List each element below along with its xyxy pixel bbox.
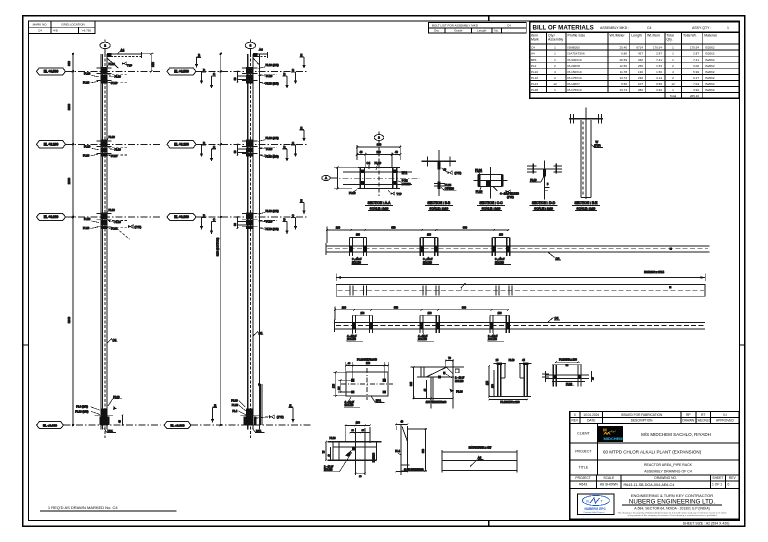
svg-text:REV: REV	[729, 476, 737, 480]
section A-A dimensions	[356, 143, 402, 167]
svg-text:(TYP): (TYP)	[135, 225, 142, 229]
level line EL +3.200 col1	[37, 141, 161, 148]
svg-text:D: D	[203, 68, 205, 72]
svg-text:E: E	[214, 403, 216, 407]
svg-text:0: 0	[728, 483, 730, 487]
svg-text:D: D	[283, 218, 285, 222]
section E-E caption	[572, 201, 600, 210]
bolt list table frame	[429, 23, 527, 33]
detail gusset plate	[410, 358, 463, 409]
svg-text:950: 950	[391, 227, 396, 230]
svg-text:4-B: 4-B	[53, 29, 58, 33]
svg-text:C4: C4	[531, 46, 535, 50]
bracket dim 300 col1	[142, 53, 155, 73]
svg-text:SECTION : E-E: SECTION : E-E	[574, 201, 598, 205]
level line EL +6.500 col1	[37, 68, 161, 75]
svg-text:PL16: PL16	[83, 226, 90, 230]
svg-text:12.56: 12.56	[619, 64, 627, 68]
svg-text:Total: Total	[670, 94, 677, 98]
svg-text:IS2062: IS2062	[705, 76, 715, 80]
svg-text:PL28: PL28	[566, 382, 573, 386]
svg-text:C: C	[292, 68, 294, 72]
svg-text:IS2062: IS2062	[705, 52, 715, 56]
section A-A caption	[365, 201, 393, 210]
svg-text:SCALE: SCALE	[603, 476, 615, 480]
svg-text:PL28: PL28	[113, 395, 120, 399]
svg-text:PL175X10: PL175X10	[568, 88, 582, 92]
svg-text:Assembly: Assembly	[548, 38, 563, 42]
svg-text:PL16: PL16	[83, 81, 90, 85]
svg-text:300: 300	[67, 61, 71, 66]
level line EL +0.300 col1	[37, 213, 161, 220]
svg-text:427: 427	[638, 52, 643, 56]
svg-text:SCALE : 1:10: SCALE : 1:10	[534, 206, 553, 210]
svg-text:950: 950	[394, 306, 399, 309]
svg-text:PL10: PL10	[266, 147, 273, 151]
beam 1 body	[326, 243, 709, 255]
centering tick top	[488, 16, 490, 22]
svg-text:PL6 (B/S): PL6 (B/S)	[76, 405, 88, 409]
svg-text:of any portion of this company: of any portion of this company associati…	[628, 514, 718, 517]
svg-text:C: C	[213, 145, 215, 149]
svg-text:Powering Global Progress: Powering Global Progress	[584, 512, 605, 514]
BOM header text	[531, 34, 717, 42]
mark table frame	[29, 21, 95, 34]
svg-text:SECTION : B-B: SECTION : B-B	[427, 201, 451, 205]
svg-text:6100 (BOTTOM): 6100 (BOTTOM)	[216, 238, 219, 257]
svg-text:C4: C4	[556, 256, 560, 260]
svg-text:APPROVED: APPROVED	[716, 419, 734, 423]
level line EL +3.200 col2	[167, 141, 307, 148]
base level line EL +0.000 col2	[164, 422, 311, 429]
svg-text:1 OF 1: 1 OF 1	[712, 483, 722, 487]
svg-text:PL340X10: PL340X10	[568, 58, 582, 62]
svg-text:2900: 2900	[67, 177, 71, 184]
svg-text:D: D	[283, 72, 285, 76]
beam 1 stiffener group 2	[420, 238, 439, 257]
section A-A bubble	[374, 132, 384, 197]
svg-text:300: 300	[151, 62, 155, 67]
svg-text:REACTOR AREA_PIPE RACK: REACTOR AREA_PIPE RACK	[644, 463, 693, 467]
client/project/title label divider	[596, 423, 598, 475]
svg-text:TYP: TYP	[127, 64, 132, 68]
svg-text:170.54: 170.54	[653, 46, 663, 50]
svg-text:1 REQ'D AS DRAWN MARKED No. C4: 1 REQ'D AS DRAWN MARKED No. C4	[48, 505, 119, 510]
svg-text:C4: C4	[38, 29, 42, 33]
svg-text:6.27: 6.27	[693, 76, 699, 80]
title row	[579, 463, 693, 474]
svg-text:Length: Length	[477, 29, 487, 33]
svg-text:282: 282	[638, 88, 643, 92]
svg-text:E: E	[289, 403, 291, 407]
column C4 shaft (left elevation)	[101, 54, 107, 438]
svg-text:PL175X10: PL175X10	[568, 76, 582, 80]
section C-C caption	[477, 201, 505, 210]
svg-text:PL28: PL28	[445, 183, 452, 187]
svg-text:4 - 16 Ø HOLES: 4 - 16 Ø HOLES	[500, 192, 519, 196]
svg-text:PL10: PL10	[509, 359, 515, 362]
svg-text:1: 1	[727, 26, 729, 30]
detail U plate	[486, 359, 532, 404]
svg-text:170.54: 170.54	[690, 46, 700, 50]
svg-text:PL10: PL10	[84, 217, 91, 221]
svg-text:N: N	[586, 499, 589, 504]
level line EL +0.300 col2	[167, 213, 307, 220]
column C4 shaft (right elevation)	[248, 54, 260, 438]
base plate column 1	[75, 395, 123, 433]
svg-text:HOLES: HOLES	[455, 380, 464, 383]
svg-text:PL100X8 x 100: PL100X8 x 100	[559, 358, 577, 362]
dimension line column 1	[67, 53, 74, 427]
svg-text:PL16 (B/S): PL16 (B/S)	[266, 82, 279, 86]
svg-text:PL150X10: PL150X10	[568, 70, 582, 74]
svg-text:PL28: PL28	[456, 390, 463, 394]
project row	[575, 449, 701, 454]
title block frame	[570, 412, 740, 520]
svg-text:305: 305	[410, 381, 413, 386]
svg-text:PL10: PL10	[531, 70, 538, 74]
grid bubble column 2	[245, 40, 255, 54]
svg-text:PL4: PL4	[395, 449, 400, 453]
svg-text:SCALE : 1:10: SCALE : 1:10	[429, 206, 448, 210]
svg-text:ISSUED FOR FABRICATION: ISSUED FOR FABRICATION	[621, 413, 663, 417]
beam connection col1 level 3	[83, 208, 128, 231]
svg-text:7.41: 7.41	[693, 58, 699, 62]
svg-text:IS2062: IS2062	[705, 88, 715, 92]
svg-text:Qty.: Qty.	[666, 38, 672, 42]
svg-text:PL24: PL24	[531, 82, 538, 86]
svg-text:PL16 (B/S): PL16 (B/S)	[75, 409, 88, 413]
base level line EL +0.000 col1	[37, 422, 161, 429]
svg-text:230: 230	[638, 76, 643, 80]
svg-text:DATE: DATE	[587, 419, 595, 423]
svg-text:D: D	[203, 141, 205, 145]
section A-A left dim and bubble	[322, 166, 357, 189]
svg-text:2.87: 2.87	[693, 52, 699, 56]
svg-text:A: A	[325, 176, 327, 180]
centering tick bottom	[488, 520, 490, 526]
beam 2 overall dim	[336, 270, 705, 281]
svg-text:SECTION : D-D: SECTION : D-D	[532, 201, 556, 205]
beam 1 stiffener group 1	[349, 238, 367, 257]
beam 2 tick group 1	[350, 286, 366, 296]
section A-A body	[331, 167, 420, 188]
mark table text	[33, 22, 92, 32]
svg-text:TITLE: TITLE	[579, 466, 589, 470]
svg-text:BOLT LIST FOR ASSEMBLY MKD: BOLT LIST FOR ASSEMBLY MKD	[432, 24, 479, 28]
svg-text:220: 220	[377, 151, 382, 154]
svg-text:A4: A4	[259, 48, 263, 52]
svg-text:300: 300	[377, 143, 382, 147]
svg-text:PROJECT: PROJECT	[575, 476, 590, 480]
nuberg logo box	[578, 494, 615, 515]
beam 2 tick group 2	[423, 286, 439, 296]
svg-text:12: 12	[553, 82, 557, 86]
svg-text:C4: C4	[113, 338, 117, 342]
beam 2 body	[336, 283, 705, 296]
svg-text:Material: Material	[704, 34, 717, 38]
svg-text:PL200X8: PL200X8	[568, 64, 581, 68]
svg-text:HOLES: HOLES	[324, 469, 333, 472]
client row	[577, 432, 711, 437]
svg-text:3.92: 3.92	[656, 88, 662, 92]
svg-text:ISMB200 x 6714: ISMB200 x 6714	[644, 270, 664, 274]
svg-text:BP1: BP1	[108, 429, 114, 433]
svg-text:ISA75X75X6: ISA75X75X6	[568, 52, 586, 56]
svg-text:REV: REV	[572, 419, 579, 423]
svg-text:PL16 (B/S): PL16 (B/S)	[266, 63, 279, 67]
svg-text:TYP: TYP	[397, 192, 402, 196]
svg-text:C: C	[292, 214, 294, 218]
svg-text:PL10: PL10	[84, 145, 91, 149]
centering tick right	[739, 344, 745, 346]
top angle bracket A4 on column 1	[107, 48, 142, 68]
detail PL4 plate	[395, 421, 427, 475]
svg-text:R643: R643	[579, 483, 587, 487]
svg-text:EL +6.500: EL +6.500	[44, 70, 59, 74]
svg-text:SCALE : 1:10: SCALE : 1:10	[370, 206, 389, 210]
svg-text:280: 280	[342, 306, 347, 309]
svg-text:IS2062: IS2062	[705, 58, 715, 62]
detail gusset dims/labels	[410, 366, 464, 404]
svg-text:11.78: 11.78	[620, 70, 628, 74]
svg-text:SHEET SIZE : A2 (594 X 420): SHEET SIZE : A2 (594 X 420)	[683, 522, 730, 526]
svg-text:25.40: 25.40	[619, 46, 627, 50]
svg-text:PL16: PL16	[109, 135, 116, 139]
svg-text:175: 175	[486, 380, 489, 385]
svg-text:1.50: 1.50	[656, 70, 662, 74]
level line EL +6.500 col2	[167, 68, 307, 75]
svg-text:C4: C4	[647, 26, 652, 30]
svg-text:130: 130	[638, 70, 643, 74]
beam connection col1 level 1	[83, 62, 128, 85]
rev row text	[572, 413, 735, 423]
svg-text:Wt./Meter: Wt./Meter	[610, 34, 626, 38]
detail clip bracket dims	[324, 436, 376, 478]
beam 3 stiffener group 1	[352, 315, 373, 333]
svg-text:EL +3.200: EL +3.200	[44, 143, 59, 147]
svg-text:BP1: BP1	[376, 399, 382, 403]
svg-text:1.53: 1.53	[656, 64, 662, 68]
svg-text:DESCRIPTION: DESCRIPTION	[631, 419, 653, 423]
BOM title row text	[533, 24, 730, 31]
svg-text:D: D	[283, 145, 285, 149]
svg-text:260: 260	[366, 362, 371, 365]
svg-text:10.01.2024: 10.01.2024	[583, 413, 599, 417]
section D-D caption	[530, 201, 558, 210]
svg-text:ASSY QTY :: ASSY QTY :	[692, 26, 711, 30]
svg-text:AS SHOWN: AS SHOWN	[600, 483, 619, 487]
C4 leader col2	[253, 331, 264, 336]
svg-text:3.14: 3.14	[656, 76, 662, 80]
svg-text:No.: No.	[494, 29, 499, 33]
svg-text:PL16: PL16	[109, 62, 116, 66]
svg-text:PL16: PL16	[111, 154, 118, 158]
svg-text:ISMB200: ISMB200	[373, 452, 375, 462]
section B-B caption	[425, 201, 453, 210]
svg-text:PL16: PL16	[109, 208, 116, 212]
svg-text:IS2062: IS2062	[705, 70, 715, 74]
beam connection col2 level 1	[234, 63, 279, 85]
dimension line column 2	[216, 53, 221, 427]
svg-text:Profile Size: Profile Size	[568, 34, 586, 38]
svg-text:PL10: PL10	[330, 436, 337, 440]
beam 3 C4 label	[548, 316, 560, 322]
svg-text:CLIENT: CLIENT	[577, 432, 590, 436]
svg-text:PL28: PL28	[231, 398, 238, 402]
svg-text:BP1: BP1	[402, 171, 408, 175]
svg-text:R643-11-SB-DGA-004-AE6-C4: R643-11-SB-DGA-004-AE6-C4	[624, 483, 675, 487]
weld note col1 level 3	[117, 225, 142, 239]
svg-text:VJ: VJ	[723, 413, 727, 417]
svg-text:M/S MIDCHEM SACHLO, RIYADH: M/S MIDCHEM SACHLO, RIYADH	[641, 432, 711, 437]
side plate col2 bottom	[258, 383, 262, 425]
svg-text:3300: 3300	[67, 103, 71, 110]
beam 3 stiffener group 2	[419, 315, 440, 333]
detail BP1 dims	[332, 358, 389, 397]
svg-text:60 MTPD CHLOR ALKALI PLANT (EX: 60 MTPD CHLOR ALKALI PLANT (EXPANSION)	[603, 449, 702, 454]
svg-text:C4: C4	[367, 161, 371, 165]
svg-text:PL24: PL24	[475, 168, 482, 172]
svg-text:EL +0.000: EL +0.000	[170, 423, 184, 427]
beam 1 hole notes	[352, 257, 512, 265]
svg-text:E: E	[300, 53, 302, 57]
beam 1 C4 label	[548, 252, 561, 260]
svg-text:175: 175	[332, 383, 335, 388]
svg-text:A-584, SECTOR-64, NOIDA - 2013: A-584, SECTOR-64, NOIDA - 201301 U.P (IN…	[634, 506, 709, 510]
svg-text:960: 960	[462, 306, 467, 309]
svg-text:3.06: 3.06	[693, 64, 699, 68]
svg-text:PL16: PL16	[83, 154, 90, 158]
top angle bracket A4 on column 2	[253, 48, 267, 65]
svg-text:C: C	[213, 218, 215, 222]
svg-text:LTW10: LTW10	[402, 182, 411, 186]
svg-text:3.92: 3.92	[693, 88, 699, 92]
section arrows right col2 level 1	[283, 53, 306, 89]
svg-text:PL16: PL16	[111, 81, 118, 85]
svg-text:6.80: 6.80	[621, 52, 627, 56]
svg-text:PL28: PL28	[531, 88, 538, 92]
svg-text:PL16 (B/S): PL16 (B/S)	[266, 227, 279, 231]
svg-text:26.69: 26.69	[619, 58, 627, 62]
svg-text:7.04: 7.04	[693, 82, 699, 86]
svg-text:PL16 (B/S): PL16 (B/S)	[266, 209, 279, 213]
midchem logo	[598, 426, 623, 442]
beam 3 body	[335, 319, 705, 332]
detail base plate BP1	[341, 368, 393, 400]
svg-text:ISA75X75X6 x 427: ISA75X75X6 x 427	[469, 446, 492, 450]
svg-text:(TYP): (TYP)	[277, 415, 284, 419]
svg-text:ASSEMBLY MKD :: ASSEMBLY MKD :	[600, 26, 629, 30]
C4 leader col1	[107, 338, 118, 344]
svg-text:SECTION : C-C: SECTION : C-C	[479, 201, 503, 205]
svg-text:RT: RT	[701, 413, 705, 417]
beam 3 dimensions	[334, 306, 509, 320]
section arrows right col2 level 3	[283, 199, 306, 235]
svg-text:CHECKED: CHECKED	[695, 419, 711, 423]
svg-text:NUBERG EPC: NUBERG EPC	[585, 507, 607, 511]
section D-D body	[527, 161, 562, 200]
svg-text:7.41: 7.41	[656, 58, 662, 62]
svg-text:280: 280	[336, 227, 341, 230]
svg-text:CTW10: CTW10	[445, 186, 455, 190]
svg-text:2.87: 2.87	[656, 52, 662, 56]
centering tick left	[23, 344, 29, 346]
svg-text:SHEET: SHEET	[712, 476, 723, 480]
svg-text:PL4: PL4	[232, 409, 237, 413]
svg-text:B: B	[198, 53, 200, 57]
svg-text:A4: A4	[531, 52, 535, 56]
svg-text:SCALE : 1:10: SCALE : 1:10	[577, 206, 596, 210]
detail angle A4	[442, 446, 517, 473]
svg-text:PL16 (B/S): PL16 (B/S)	[266, 136, 279, 140]
svg-text:12: 12	[671, 82, 675, 86]
svg-text:M: M	[603, 428, 607, 433]
beam 3 hole notes	[347, 333, 505, 341]
svg-text:60 (PL10X60X360): 60 (PL10X60X360)	[404, 469, 424, 471]
svg-text:SCALE : 1:10: SCALE : 1:10	[482, 206, 501, 210]
svg-text:0: 0	[574, 413, 576, 417]
svg-text:13.74: 13.74	[619, 88, 627, 92]
section E-E body	[569, 108, 603, 199]
section arrows left col2 level 1	[195, 53, 216, 89]
svg-text:360: 360	[422, 448, 425, 453]
svg-text:EL +0.000: EL +0.000	[43, 423, 57, 427]
svg-text:RP: RP	[686, 413, 690, 417]
svg-text:PL100X7: PL100X7	[568, 82, 581, 86]
rev row dividers	[579, 412, 581, 424]
beam connection col1 level 2	[83, 135, 128, 158]
svg-text:C: C	[213, 72, 215, 76]
svg-text:GRID LOCATION: GRID LOCATION	[61, 22, 84, 26]
svg-text:EL +0.300: EL +0.300	[174, 215, 189, 219]
svg-text:BP1: BP1	[531, 58, 537, 62]
svg-text:Mark: Mark	[531, 38, 539, 42]
beam 1 dimensions	[326, 227, 509, 244]
svg-text:13.74: 13.74	[619, 76, 627, 80]
beam connection col2 level 3	[234, 209, 279, 231]
svg-text:Dia.: Dia.	[434, 29, 440, 33]
svg-text:EL +6.500: EL +6.500	[174, 70, 189, 74]
svg-text:ENGINEERING & TURN KEY CONTRAC: ENGINEERING & TURN KEY CONTRACTOR	[631, 493, 713, 498]
section arrows left col2 level 2	[200, 141, 216, 162]
detail clip bracket	[328, 422, 382, 475]
svg-text:ASSEMBLY DRAWING OF C4: ASSEMBLY DRAWING OF C4	[644, 470, 692, 474]
svg-text:PL2: PL2	[531, 64, 537, 68]
svg-text:5.99: 5.99	[693, 70, 699, 74]
section C-C body	[474, 167, 520, 199]
svg-text:BP1: BP1	[256, 429, 262, 433]
svg-text:انوكيم: انوكيم	[609, 429, 616, 433]
scale row dividers	[596, 475, 598, 489]
beam 3 stiffener group 3	[489, 315, 510, 333]
detail BP1 labels	[344, 396, 385, 407]
section B-B body	[422, 150, 462, 196]
svg-text:5.50: 5.50	[621, 82, 627, 86]
beam 1 stiffener group 3	[492, 238, 511, 257]
beam connection col2 level 2	[234, 136, 279, 158]
svg-text:+6.750: +6.750	[82, 29, 92, 33]
svg-text:DRAWING NO.: DRAWING NO.	[654, 476, 677, 480]
svg-text:E: E	[300, 199, 302, 203]
svg-text:PROJECT: PROJECT	[575, 450, 592, 454]
company block text	[618, 493, 728, 517]
svg-text:175 PL10X175x30: 175 PL10X175x30	[426, 401, 447, 404]
svg-text:250: 250	[638, 64, 643, 68]
svg-text:IS2062: IS2062	[705, 46, 715, 50]
BOM table frame	[530, 22, 740, 98]
svg-text:960: 960	[463, 227, 468, 230]
